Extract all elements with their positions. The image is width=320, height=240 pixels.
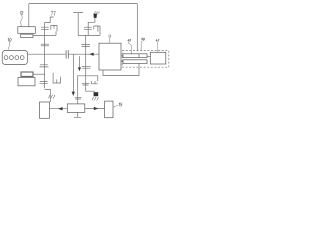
wire muffler to tail box bbox=[85, 108, 105, 110]
leader for label 15 bbox=[113, 105, 118, 107]
throttle body box bbox=[21, 34, 33, 37]
air cleaner upper box bbox=[21, 72, 33, 76]
leader for label 12 bbox=[21, 15, 23, 27]
wire catalyst to muffler bbox=[50, 108, 68, 110]
label 3 bbox=[109, 35, 110, 38]
label 15 bbox=[119, 103, 123, 106]
engine block bbox=[2, 50, 27, 64]
wire riser rail to battery enclosure bbox=[136, 4, 138, 51]
leader for label 3 bbox=[109, 38, 111, 43]
cell bar divider bbox=[138, 54, 140, 58]
arrowhead toward engine bbox=[89, 53, 94, 56]
flange plates B bbox=[84, 27, 92, 29]
o2 sensor body bbox=[94, 92, 99, 96]
staple cup bbox=[91, 81, 98, 84]
wire crankshaft from engine bbox=[28, 53, 66, 55]
flange plates A3 bbox=[40, 65, 49, 67]
label 17 strokes bbox=[92, 97, 99, 101]
cylinder 4 bbox=[20, 56, 24, 60]
sensor drop line bbox=[78, 56, 80, 67]
wire to o2 sensor bbox=[86, 91, 95, 92]
spark plug body bbox=[94, 14, 97, 18]
intake flange plates A1 bbox=[41, 27, 49, 29]
injector step pipe bbox=[45, 17, 54, 23]
arrowhead egr drop bbox=[72, 92, 75, 96]
throttle actuator box bbox=[18, 27, 36, 34]
exhaust staple bbox=[78, 76, 98, 104]
battery cell bar 1 bbox=[123, 54, 147, 58]
manifold flange plates lower bbox=[82, 66, 91, 68]
wire throttle body to intake shelf bbox=[33, 32, 56, 36]
leader for label 42 bbox=[129, 42, 132, 54]
intake bracket B bbox=[94, 26, 100, 35]
battery controller box 41 bbox=[150, 52, 166, 64]
wire air cleaner to intake line bbox=[33, 73, 45, 75]
wire riser rail to throttle actuator bbox=[28, 4, 30, 27]
label 11 spark bbox=[94, 11, 100, 14]
label 40 bbox=[142, 38, 145, 41]
wire exhaust downpipe elbow bbox=[45, 89, 51, 102]
label 42 bbox=[128, 39, 131, 41]
label 16 bbox=[48, 95, 55, 99]
leader for label 40 bbox=[141, 41, 142, 51]
wire generator to cell 2 bbox=[121, 61, 123, 63]
intake bracket A bbox=[51, 25, 57, 31]
flange plates A4 bbox=[39, 82, 48, 84]
battery cell bar 2 bbox=[123, 60, 147, 64]
label 12 bbox=[20, 11, 23, 14]
label 41 bbox=[156, 39, 159, 42]
muffler inlet plates bbox=[75, 97, 82, 99]
wire cells to controller bbox=[147, 56, 150, 58]
manifold flange plates upper bbox=[81, 45, 90, 47]
flange plates A2 bbox=[41, 44, 49, 46]
wire generator to cell 1 bbox=[121, 55, 123, 57]
tail box bbox=[105, 101, 113, 118]
muffler box bbox=[67, 104, 85, 113]
label 10 bbox=[8, 38, 11, 41]
cylinder 2 bbox=[10, 56, 14, 60]
air cleaner lower box bbox=[18, 78, 35, 86]
battery return loop bbox=[103, 64, 139, 76]
leader for label 10 bbox=[8, 42, 10, 51]
exhaust manifold line bbox=[85, 35, 87, 91]
clutch plates bbox=[66, 50, 68, 58]
cylinder 3 bbox=[15, 56, 19, 60]
label 11 intake bbox=[51, 11, 56, 16]
intake runner T bbox=[73, 13, 100, 36]
leader for label 41 bbox=[156, 42, 159, 53]
staple inner bar bbox=[82, 84, 90, 85]
arrowhead sensor drop bbox=[78, 67, 81, 71]
wire clutch to generator bbox=[69, 53, 100, 55]
exhaust bracket bbox=[53, 73, 61, 83]
cylinder 1 bbox=[4, 56, 8, 60]
arrowhead tailpipe bbox=[94, 107, 98, 110]
intake vertical line bbox=[44, 23, 46, 89]
generator box 3 bbox=[99, 43, 121, 70]
muffler drain stub bbox=[74, 112, 81, 117]
arrowhead into catalyst bbox=[58, 107, 63, 110]
wire top rail bbox=[29, 3, 138, 5]
battery enclosure dashed bbox=[122, 51, 169, 68]
wire spark plug elbow bbox=[88, 18, 95, 36]
egr drop line bbox=[72, 54, 74, 91]
catalyst box bbox=[40, 102, 50, 118]
